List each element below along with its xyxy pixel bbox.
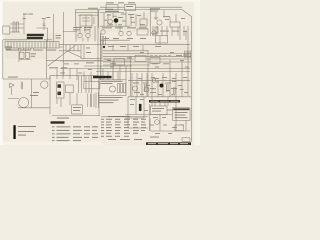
wire: grid leads (8, 76, 50, 115)
wire: det col extras (160, 27, 186, 45)
wire: agc feed (27, 40, 63, 47)
wire: hv risers (132, 60, 182, 97)
wire: tuner bottom row (100, 25, 130, 27)
wire: table edge riser (149, 104, 151, 131)
resistor R40 (145, 84, 147, 92)
wire: (density wash upper right) (5, 9, 191, 97)
wire: vertical riser x148 (147, 50, 149, 96)
interlock box (66, 85, 74, 93)
wire: crt feed (125, 114, 173, 116)
wire: screen vertical (97, 10, 99, 76)
oscillator box (135, 56, 146, 62)
wire: hv line (100, 39, 130, 41)
wire: pin drops (113, 45, 143, 51)
wire: crt drops (128, 97, 168, 131)
wire: if link row (63, 32, 88, 42)
wire: right bus y50.8 (103, 50, 148, 52)
bold note block: voltage chart (27, 34, 44, 40)
tube V14 envelope (86, 33, 90, 37)
deflection yoke box (175, 125, 184, 131)
tuner inner divider (82, 15, 94, 26)
parts list under model heading (18, 126, 98, 141)
labels: speaker box (73, 106, 81, 109)
sync box (150, 58, 160, 64)
hv area texture (138, 77, 142, 80)
phono input flag (10, 83, 15, 95)
inductor L8 row (150, 55, 171, 57)
labels: U1 pin text (6, 49, 18, 52)
strip lettering (148, 142, 188, 145)
video box inner rail (83, 45, 85, 59)
wire: balun drop (23, 14, 25, 35)
capacitor comb near border (185, 51, 191, 59)
label row: top-left (23, 13, 28, 16)
connector dark cell 2 (58, 92, 62, 96)
wire: sound takeoff (150, 8, 152, 36)
wire: bottom audio rail (52, 115, 100, 117)
wire: output rail (128, 96, 191, 98)
labels: tuner row (102, 26, 112, 29)
wire: bus y71.5 (96, 71, 190, 73)
power supply box (99, 80, 126, 96)
left scan margin (0, 0, 3, 145)
wire: agc line (3, 40, 27, 79)
tube V9 envelope (110, 86, 116, 92)
tiny printed text marks (6, 2, 190, 137)
wire: link to converter (100, 6, 152, 8)
wire: right bus D (103, 64, 150, 66)
video output stage box (81, 45, 102, 59)
IF amplifier module U1 (5, 42, 59, 49)
tube V10 envelope (144, 87, 149, 92)
wire: right bus y44.7 (103, 44, 190, 46)
wire: deflection rail (128, 79, 190, 81)
wire: hv cage risers (155, 103, 165, 107)
labels: right lower (152, 107, 164, 110)
wire: right bus C (103, 61, 191, 63)
power supply section title (93, 76, 112, 79)
tube V15 envelope (152, 31, 156, 35)
wire: tr comp drops (108, 11, 144, 27)
choke L2 (118, 84, 120, 93)
wire: vertical riser x130.5 (130, 56, 132, 96)
model number heading (51, 121, 65, 123)
wire: vertical riser x188 (187, 26, 189, 96)
U1 pin stubs (18, 48, 33, 62)
wire: vertical riser x113 (112, 61, 114, 80)
tube V5 envelope (41, 81, 48, 88)
tube chart table (101, 116, 146, 140)
if transformer box (140, 19, 147, 26)
labels: ps box (101, 81, 123, 82)
tube V13 envelope (78, 33, 82, 37)
wire: agc link (44, 39, 52, 41)
wire: coupling pins (66, 45, 78, 51)
ratio detector box (156, 35, 168, 43)
wire: audio drops (79, 76, 92, 93)
wire: osc section (37, 14, 54, 42)
resistor R41 (167, 84, 169, 92)
sound detector box (170, 22, 180, 27)
wire: chassis ground rail left (3, 76, 98, 79)
transformer T1 winding (13, 22, 15, 32)
wire: right bus A (103, 53, 191, 55)
wire: video bus lower (59, 50, 81, 52)
tube V6 envelope (19, 98, 29, 108)
capacitor C1 cluster (43, 20, 46, 31)
choke L3 (121, 84, 123, 93)
wire: under-link (100, 12, 124, 14)
wire: tuner inner feed (78, 14, 99, 16)
wire: long mid bus (46, 60, 103, 62)
wire: bus y68.5 (60, 68, 190, 70)
connector dark cell 1 (58, 84, 62, 88)
wire: sound branch (152, 7, 182, 22)
wire: tuner shield nested line (75, 10, 98, 28)
hv box title bar (173, 108, 189, 110)
small box above bottom strip (182, 138, 190, 142)
black dot: mixer tube shield (114, 18, 119, 23)
tube V2 envelope (108, 19, 113, 24)
labels: mid notes (49, 66, 58, 69)
top scan margin (0, 0, 200, 2)
paper background (0, 0, 200, 145)
wire: table top rule (101, 116, 148, 118)
antenna terminal box (3, 26, 10, 34)
filter bank coil (101, 36, 106, 45)
wire: ps box feeds (103, 69, 118, 80)
banner lettering (151, 100, 179, 103)
transformer box T2 (84, 82, 100, 89)
resistor R21 (155, 27, 158, 33)
wire: video bus upper (59, 44, 81, 46)
black dot: hv rectifier (160, 84, 164, 88)
wire: bottom right rail (150, 130, 190, 132)
wire: antenna leads (10, 24, 24, 32)
resistor R2 (26, 52, 30, 58)
wire: left riser (46, 40, 48, 79)
flyback cage box (151, 106, 168, 115)
wire: B+ vertical (62, 12, 64, 76)
wire: sync drops (57, 69, 91, 82)
transformer T1 winding (17, 22, 19, 32)
typical circuit banner (149, 100, 180, 103)
resistor R1 (20, 52, 25, 58)
wire: lower mid drops (57, 93, 77, 107)
tube V3 envelope (157, 20, 162, 25)
tuner box (80, 15, 92, 26)
labels: bus tags (86, 61, 94, 64)
wire: bus y66 (84, 65, 132, 67)
connector strip J1 (57, 82, 65, 98)
wire: crt bottom extras (150, 97, 186, 131)
tr comp texture (107, 14, 111, 17)
resistor R3 (18, 44, 20, 46)
damper diode circle (155, 120, 160, 125)
black dot: filter junction (103, 46, 105, 48)
wire: schematic top rail and right border (75, 10, 192, 142)
choke L4 (124, 84, 126, 93)
labels: converter (105, 8, 113, 11)
label row: under tuner (73, 26, 82, 29)
rf amp box (106, 5, 118, 11)
labels: scattered right schematic (133, 82, 139, 85)
pointer line to tube (67, 51, 82, 58)
mixer text box (137, 29, 148, 35)
tube V11 envelope (133, 86, 138, 91)
tube V8 envelope (127, 31, 131, 35)
index black bar (13, 125, 15, 139)
wire: det drops (153, 26, 184, 36)
resistor R42 (174, 87, 176, 94)
speaker field coil bars (88, 93, 99, 109)
U1 pin ticks (8, 42, 56, 49)
speaker box (72, 105, 83, 114)
wire: vertical riser x120 (119, 65, 121, 80)
labels: audio (30, 94, 38, 97)
converter box B58 (125, 4, 136, 10)
index text beside black bar (18, 125, 36, 128)
wire: main B+ riser (100, 33, 102, 80)
label: above top rail (88, 7, 98, 10)
wire: right bus B (103, 55, 191, 57)
pointer line to note (48, 44, 77, 66)
wire: right bus E (103, 58, 191, 60)
electrolytic capacitor C40 (filled) (139, 104, 142, 111)
bottom-left blank margin (3, 142, 103, 146)
mid bus texture (140, 51, 144, 54)
labels: det row (160, 30, 169, 33)
right det texture (154, 17, 158, 20)
wire: audio riser (98, 76, 100, 116)
wire: bus y61 (60, 60, 132, 62)
labels: resistor values (31, 52, 37, 55)
wire: vertical riser x126 (125, 66, 127, 80)
wire: tuner output drops (76, 26, 95, 42)
tube V7 envelope (119, 31, 123, 35)
wire: tr mid extras (104, 13, 120, 31)
tube V16 envelope (152, 79, 156, 83)
tube V4 envelope (101, 30, 105, 34)
wire: yoke link (125, 115, 148, 129)
focus control box (114, 59, 125, 66)
labels: sound IF (150, 7, 160, 10)
labels: under ps box (99, 96, 123, 99)
high voltage box (173, 108, 191, 121)
wire: hv box link (167, 109, 173, 111)
right scan margin (194, 0, 200, 145)
bottom title strip (dark) (146, 142, 191, 145)
resistor R30 (21, 82, 22, 90)
